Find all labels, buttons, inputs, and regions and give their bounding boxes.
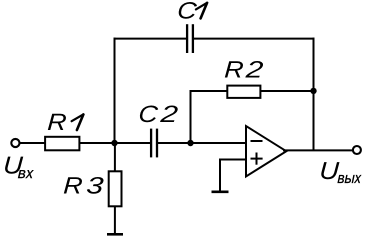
wire C1 rail left segment bbox=[114, 38, 187, 40]
label R1 bbox=[48, 114, 84, 130]
wire node A down to R3 bbox=[114, 143, 116, 171]
ground under R3 bbox=[107, 233, 123, 236]
wire node B to op-amp inverting input bbox=[191, 142, 247, 144]
input terminal bbox=[11, 139, 19, 147]
wire R3 to ground bbox=[114, 206, 116, 234]
wire C1 rail right segment bbox=[194, 38, 315, 40]
wire node A up to C1 rail bbox=[114, 38, 116, 143]
wire down to op-amp ground bbox=[219, 159, 221, 192]
op-amp U1 bbox=[246, 126, 286, 177]
label Uvx bbox=[5, 157, 34, 179]
capacitor C1 bbox=[187, 24, 193, 53]
wire node A to C2 bbox=[115, 142, 151, 144]
wire R1 to node A bbox=[79, 142, 114, 144]
label C1 bbox=[178, 2, 207, 19]
resistor R2 bbox=[227, 86, 260, 98]
label R2 bbox=[225, 61, 264, 78]
label Uvyx bbox=[321, 162, 362, 183]
output terminal bbox=[353, 146, 361, 154]
resistor R1 bbox=[45, 137, 79, 151]
wire R2 rail left bbox=[190, 90, 229, 92]
label C2 bbox=[139, 105, 178, 122]
resistor R3 bbox=[109, 171, 122, 206]
node B bbox=[187, 140, 193, 146]
label R3 bbox=[64, 177, 104, 194]
ground at op-amp bbox=[212, 191, 229, 194]
wire right vertical (C1 to output node) bbox=[313, 38, 315, 151]
wire node B up to R2 rail bbox=[190, 90, 192, 143]
wire C2 to node B bbox=[158, 142, 191, 144]
output wire bbox=[283, 149, 352, 151]
junction dot R2 right bbox=[310, 88, 316, 94]
wire ground to non-inverting input bbox=[219, 159, 246, 161]
node A bbox=[111, 140, 117, 146]
wire R2 rail right bbox=[260, 90, 313, 92]
wire input to R1 bbox=[20, 142, 45, 144]
capacitor C2 bbox=[151, 129, 157, 158]
